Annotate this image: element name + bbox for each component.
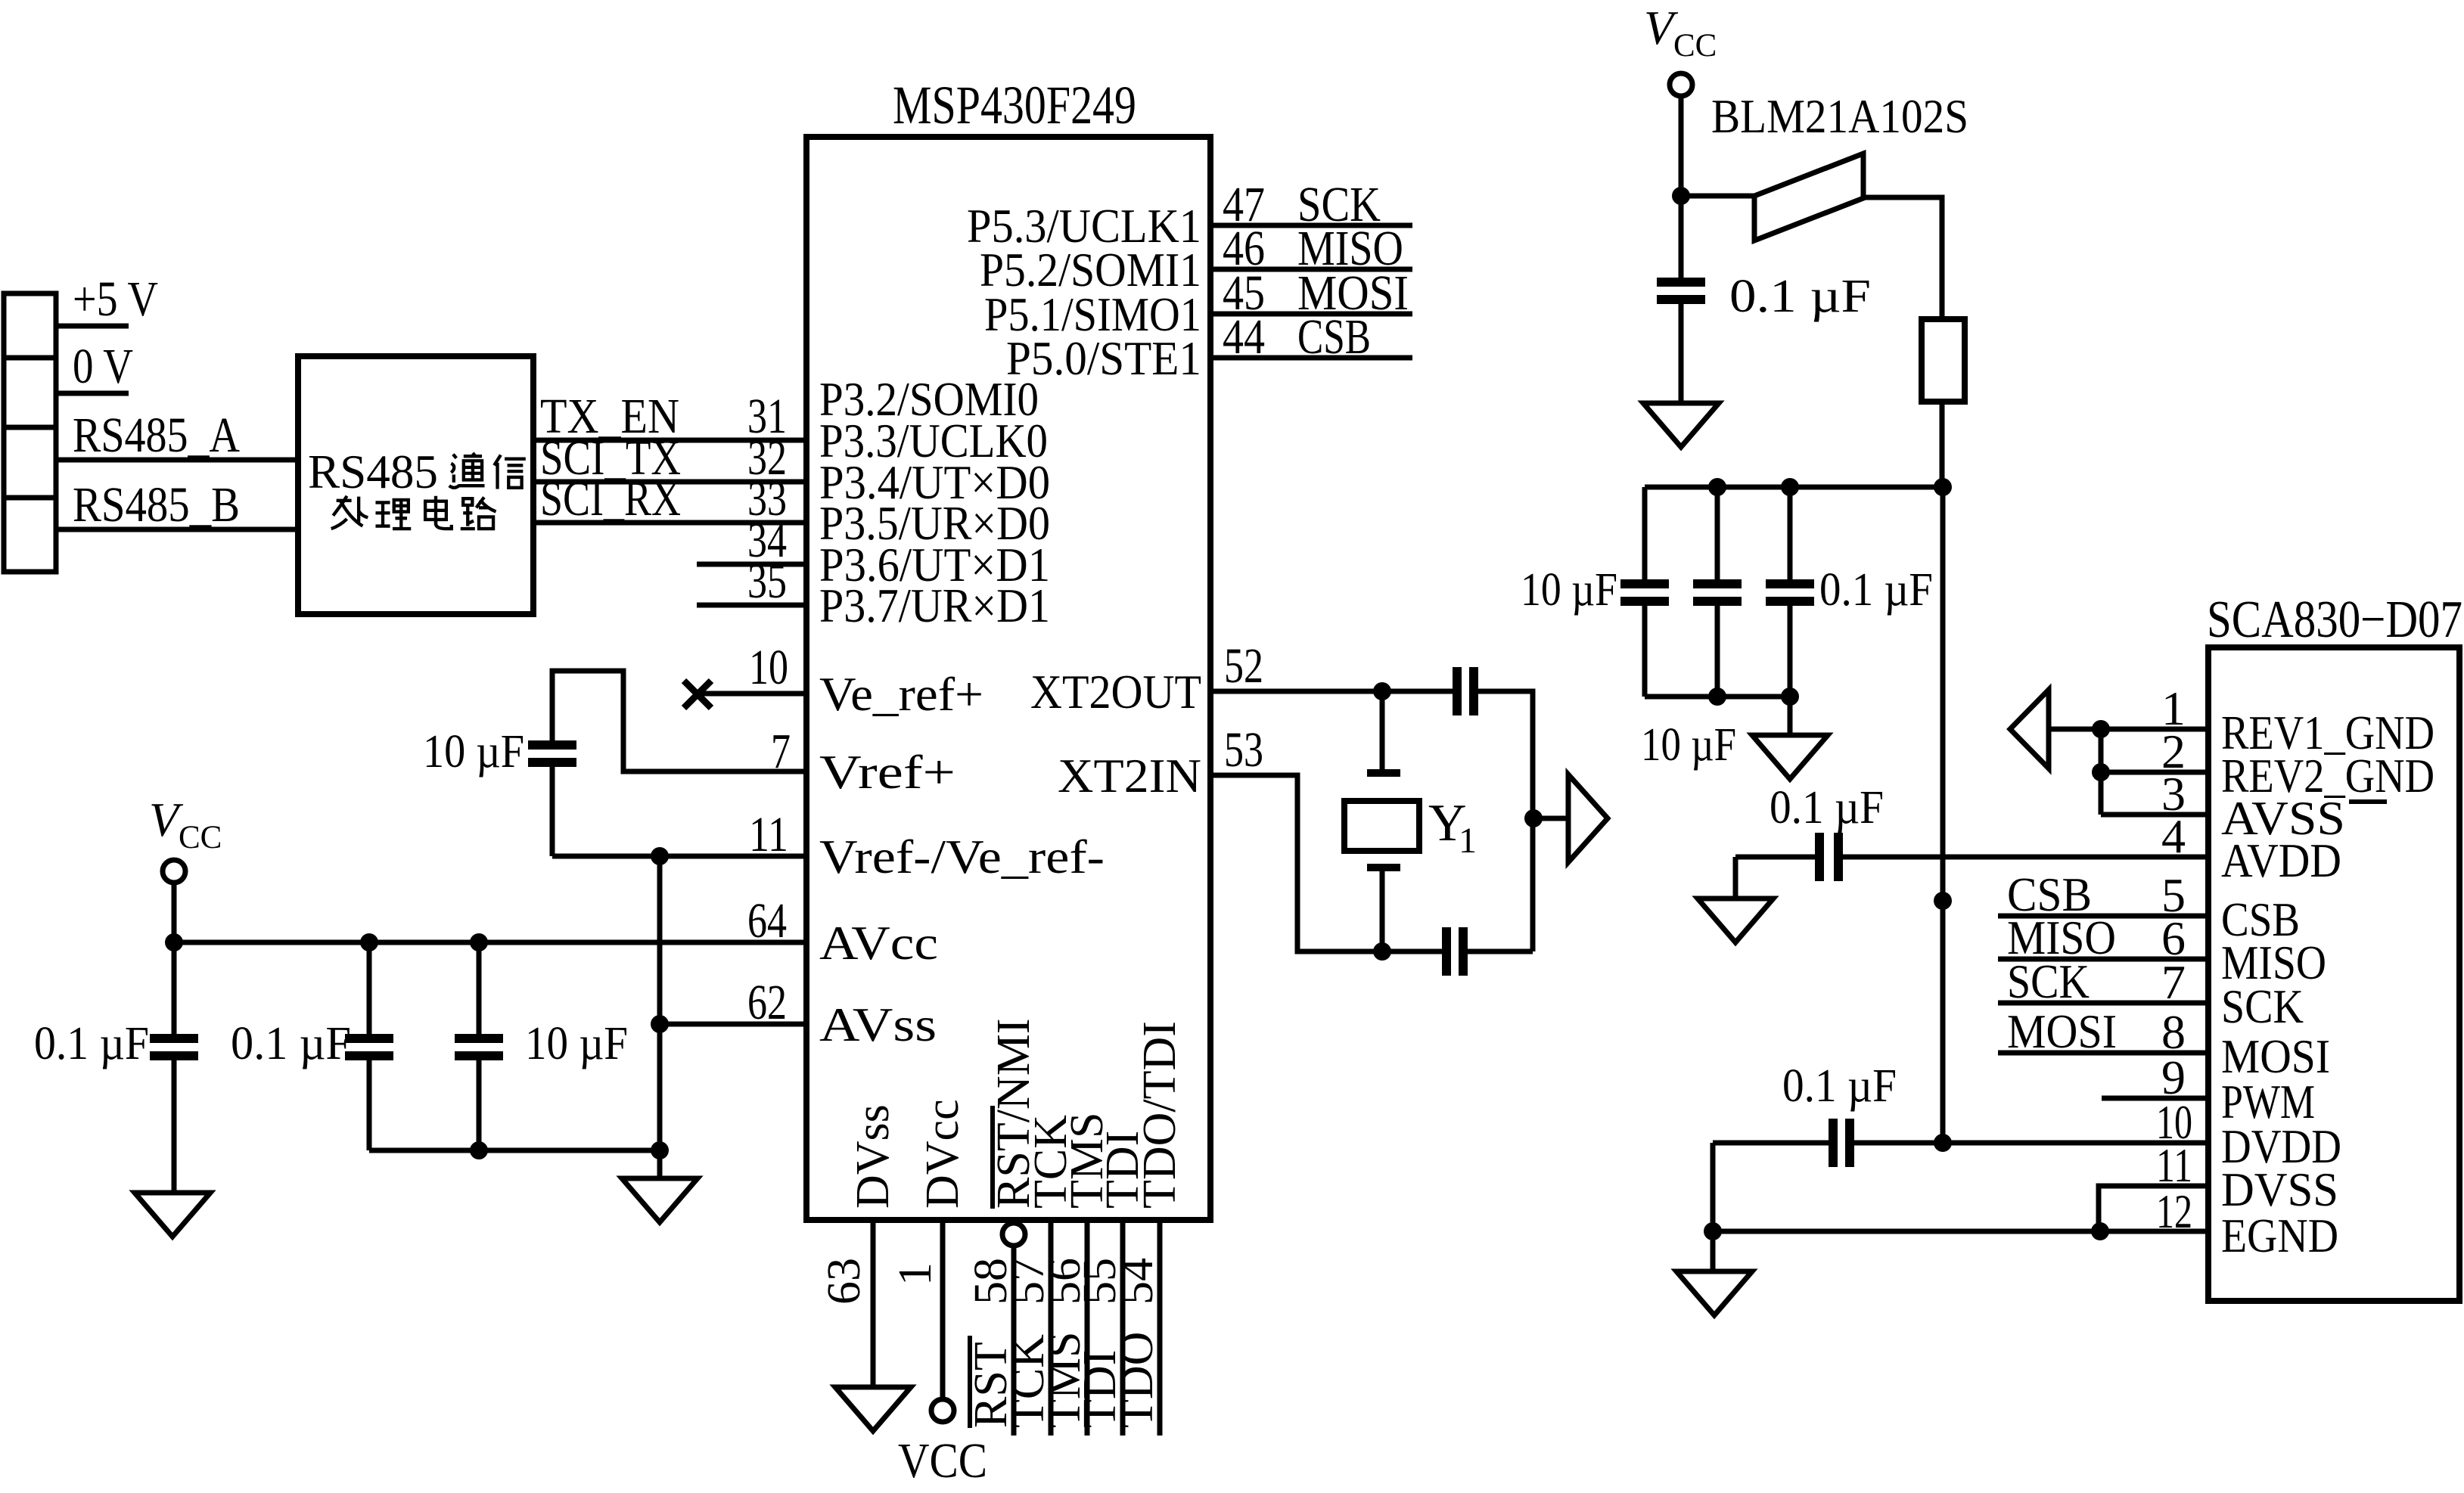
wire XT2OUT pin 52 <box>1210 689 1457 694</box>
wire RST pin 58 <box>1011 1246 1017 1436</box>
svg-text:64: 64 <box>747 893 787 948</box>
svg-text:SCI_RX: SCI_RX <box>540 471 681 526</box>
wire RS485_A <box>56 458 298 463</box>
svg-text:DVcc: DVcc <box>917 1099 968 1209</box>
wire MOSI net (pin 45) <box>1210 312 1412 317</box>
capacitor 10uF (Vref) <box>528 740 576 750</box>
capacitor C5 (XT2IN) <box>1442 927 1451 976</box>
wire bead to resistor <box>1863 197 1942 319</box>
ground (C1) <box>135 1193 210 1237</box>
capacitor C7 10uF <box>1642 487 1648 584</box>
Vcc terminal (DVcc) <box>931 1399 954 1422</box>
wire pin11 DVSS stub <box>2099 1186 2208 1231</box>
ground (C6) <box>1643 403 1719 447</box>
wire DVss pin 63 <box>871 1220 876 1387</box>
wire cap to Vref- row <box>550 762 555 856</box>
wire 0V stub <box>56 391 129 396</box>
svg-text:52: 52 <box>1224 638 1263 694</box>
capacitor C1 0.1uF <box>172 942 177 1038</box>
junction AVcc/cap2 <box>360 933 378 951</box>
junction right rail / ground <box>1524 809 1543 827</box>
svg-text:4: 4 <box>2161 809 2186 863</box>
svg-text:P5.0/STE1: P5.0/STE1 <box>1006 331 1201 385</box>
wire EGND to ground <box>1711 1231 1716 1271</box>
wire MISO net (pin 46) <box>1210 267 1412 272</box>
svg-text:+5 V: +5 V <box>73 272 158 327</box>
analog ground rail vertical <box>657 856 663 1178</box>
capacitor C9 0.1uF <box>1788 487 1793 584</box>
svg-text:35: 35 <box>747 554 787 609</box>
svg-text:AVDD: AVDD <box>2221 833 2341 887</box>
svg-text:VCC: VCC <box>898 1433 987 1488</box>
wire TCK pin 57 <box>1049 1220 1054 1436</box>
svg-text:RS485_A: RS485_A <box>73 408 240 463</box>
wire stub pin 35 <box>697 603 806 608</box>
wire Vcc to bead <box>1681 194 1754 199</box>
wire to ground (cap group) <box>1788 697 1793 735</box>
capacitor C3 10uF <box>477 942 482 1038</box>
junction Vref- / analog gnd rail <box>651 847 669 865</box>
wire TDO pin 54 <box>1157 1220 1163 1436</box>
capacitor C6 0.1uF (Vcc) <box>1657 278 1705 287</box>
wire AVDD net (pin 4) <box>1735 855 1819 860</box>
svg-text:7: 7 <box>771 724 791 779</box>
junction pin1/pin2 rail <box>2092 720 2110 738</box>
wire SCI_RX net <box>533 520 806 526</box>
svg-text:62: 62 <box>747 975 787 1030</box>
wire TMS pin 56 <box>1085 1220 1090 1436</box>
no-connect X mark <box>684 681 711 708</box>
wire Vcc to AVcc rail <box>172 883 177 942</box>
svg-text:CSB: CSB <box>1297 309 1371 365</box>
svg-text:TDO: TDO <box>1111 1332 1163 1428</box>
capacitor C8 <box>1715 487 1720 584</box>
junction EGND/DVSS <box>2091 1222 2109 1240</box>
capacitor C10 0.1uF (AVDD) <box>1815 833 1824 881</box>
junction EGND/ground <box>1704 1222 1722 1240</box>
junction (rail mark) <box>1934 892 1952 910</box>
wire pins 1-3 vertical <box>2099 729 2104 815</box>
crystal Y1 <box>1380 691 1385 773</box>
svg-text:0.1 µF: 0.1 µF <box>1782 1060 1897 1112</box>
svg-text:10 µF: 10 µF <box>525 1018 628 1069</box>
block U2 RS485 communication circuit <box>298 356 533 614</box>
connector J1 (4-pin header) <box>4 293 56 572</box>
svg-text:54: 54 <box>1111 1258 1163 1305</box>
wire pin9 PWM stub <box>2102 1096 2208 1101</box>
svg-text:0.1 µF: 0.1 µF <box>1819 564 1933 616</box>
ground (XT2, right-pointing) <box>1568 774 1608 862</box>
svg-text:53: 53 <box>1224 722 1263 778</box>
svg-text:63: 63 <box>819 1258 870 1305</box>
svg-text:DVss: DVss <box>847 1104 899 1209</box>
capacitor C11 0.1uF (DVDD) <box>1829 1119 1838 1167</box>
junction AVcc/Vcc <box>165 933 183 951</box>
wire DVDD corner to EGND rail <box>1711 1143 1716 1231</box>
svg-text:0.1 µF: 0.1 µF <box>1770 782 1884 833</box>
wire XT2IN pin 53 <box>1210 775 1446 951</box>
wire Vref+ pin 7 <box>552 671 806 771</box>
svg-text:10 µF: 10 µF <box>423 726 524 778</box>
wire DVDD net (pin 10) <box>1713 1141 1833 1146</box>
wire gnd to pin1 <box>2049 727 2208 732</box>
svg-text:SCA830−D07: SCA830−D07 <box>2207 591 2462 649</box>
wire SCI_TX net <box>533 480 806 485</box>
junction XT2OUT/crystal <box>1373 682 1391 700</box>
wire SCK net (pin 47) <box>1210 223 1412 228</box>
svg-text:10 µF: 10 µF <box>1521 564 1617 616</box>
ground (DVss) <box>835 1387 911 1431</box>
wire pin3 AVSS <box>2101 812 2208 818</box>
wire pin2 REV2_GND <box>2101 770 2208 775</box>
svg-text:Ve_ref+: Ve_ref+ <box>819 667 983 721</box>
ground (REV, left-pointing) <box>2010 690 2049 768</box>
svg-text:11: 11 <box>749 807 788 862</box>
wire to ground (XT2) <box>1533 816 1568 821</box>
junction Vcc/bead <box>1672 187 1690 205</box>
svg-text:CC: CC <box>1673 28 1717 64</box>
svg-text:1: 1 <box>1459 821 1477 861</box>
wire cap group bottom rail <box>1645 694 1790 700</box>
svg-text:1: 1 <box>890 1262 941 1286</box>
wire C5 to right rail <box>1463 949 1533 954</box>
wire EGND net (pin 12) <box>1713 1229 2208 1234</box>
resistor R1 <box>1922 319 1965 402</box>
wire CSB net (pin 44) <box>1210 355 1412 361</box>
wire AVss net <box>660 1022 806 1027</box>
wire +5V stub <box>56 324 129 329</box>
svg-text:0.1 µF: 0.1 µF <box>1729 271 1871 322</box>
wire AVcc net <box>174 940 806 945</box>
svg-text:0 V: 0 V <box>73 339 133 394</box>
wire Ve_ref+ pin 10 stub <box>696 691 806 697</box>
svg-text:MSP430F249: MSP430F249 <box>893 75 1136 135</box>
wire RS485_B <box>56 527 298 532</box>
svg-text:TDO/TDI: TDO/TDI <box>1134 1021 1185 1209</box>
reset pin 58 circle <box>1002 1223 1025 1246</box>
wire gnd rail (caps bottom) <box>369 1148 660 1153</box>
wire cap group top rail <box>1645 485 1943 490</box>
ground (EGND) <box>1676 1271 1752 1315</box>
svg-text:BLM21A102S: BLM21A102S <box>1711 89 1968 143</box>
wire pin5 CSB stub <box>1998 914 2208 919</box>
svg-text:10: 10 <box>749 640 788 695</box>
svg-text:XT2OUT: XT2OUT <box>1030 665 1201 719</box>
wire C4 to right rail <box>1474 691 1533 951</box>
svg-text:SCK: SCK <box>2221 979 2304 1033</box>
IC U1 MSP430F249 <box>806 137 1210 1220</box>
svg-text:RS485_B: RS485_B <box>73 477 240 532</box>
wire pin7 SCK stub <box>1998 1001 2208 1006</box>
ground (AVDD cap) <box>1698 899 1773 942</box>
ground (analog) <box>622 1178 698 1222</box>
svg-text:P3.7/UR×D1: P3.7/UR×D1 <box>819 579 1050 632</box>
capacitor C4 (XT2OUT) <box>1453 667 1462 715</box>
svg-text:EGND: EGND <box>2221 1209 2338 1262</box>
wire stub pin 34 <box>697 562 806 567</box>
svg-text:Vref-/Ve_ref-: Vref-/Ve_ref- <box>819 830 1105 883</box>
svg-text:AVss: AVss <box>819 998 937 1051</box>
wire DVcc pin 1 <box>940 1220 946 1399</box>
wire Vref- pin 11 <box>552 854 806 859</box>
capacitor C2 0.1uF <box>367 942 372 1038</box>
ferrite bead BLM21A102S <box>1754 154 1863 241</box>
ground (cap group) <box>1752 735 1828 779</box>
IC U3 SCA830-D07 <box>2208 647 2459 1301</box>
svg-text:12: 12 <box>2156 1184 2192 1238</box>
junction XT2IN/crystal <box>1373 942 1391 961</box>
junction AVcc/cap3 <box>470 933 488 951</box>
wire pin8 MOSI stub <box>1998 1051 2208 1056</box>
svg-text:0.1 µF: 0.1 µF <box>34 1018 149 1069</box>
svg-text:10 µF: 10 µF <box>1641 719 1736 771</box>
svg-text:MOSI: MOSI <box>2007 1004 2117 1058</box>
wire resistor to cap rail <box>1940 402 1945 487</box>
main Vcc vertical rail (right) <box>1940 487 1946 1143</box>
svg-text:CC: CC <box>179 820 222 855</box>
svg-text:AVcc: AVcc <box>819 916 938 970</box>
svg-text:44: 44 <box>1223 309 1265 365</box>
wire TX_EN net <box>533 438 806 443</box>
wire Vcc down <box>1679 96 1684 282</box>
svg-text:0.1 µF: 0.1 µF <box>231 1018 351 1069</box>
svg-text:RS485: RS485 <box>308 445 438 498</box>
svg-text:Vref+: Vref+ <box>819 745 955 799</box>
wire C10 to ground <box>1733 857 1738 899</box>
svg-text:SCK: SCK <box>2007 954 2090 1008</box>
wire TDI pin 55 <box>1120 1220 1126 1436</box>
svg-text:XT2IN: XT2IN <box>1058 749 1201 802</box>
wire pin6 MISO stub <box>1998 957 2208 962</box>
